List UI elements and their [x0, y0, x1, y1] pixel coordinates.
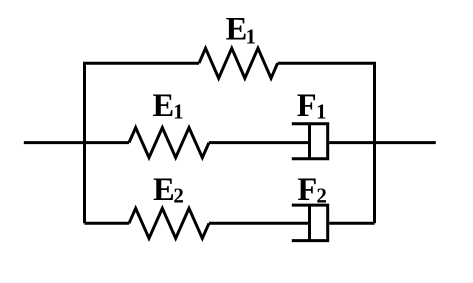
svg-text:E: E — [226, 12, 248, 48]
svg-text:1: 1 — [246, 24, 257, 48]
svg-text:1: 1 — [316, 100, 327, 124]
svg-text:F: F — [297, 88, 317, 124]
svg-text:E: E — [153, 172, 175, 208]
svg-text:F: F — [297, 172, 317, 208]
svg-text:2: 2 — [316, 184, 327, 208]
svg-text:1: 1 — [173, 100, 184, 124]
svg-text:2: 2 — [173, 184, 184, 208]
svg-text:E: E — [153, 88, 175, 124]
